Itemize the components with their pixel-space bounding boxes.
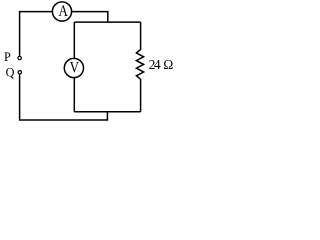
svg-text:24: 24 bbox=[149, 57, 161, 72]
svg-text:A: A bbox=[59, 3, 69, 20]
svg-text:Q: Q bbox=[6, 66, 15, 80]
svg-text:P: P bbox=[4, 50, 11, 64]
svg-text:V: V bbox=[70, 59, 80, 76]
svg-text:Ω: Ω bbox=[163, 57, 173, 72]
